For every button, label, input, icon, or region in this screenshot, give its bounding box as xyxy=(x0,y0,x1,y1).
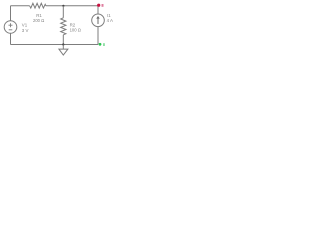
resistor R1 xyxy=(30,3,46,8)
node A probe label tick (red) xyxy=(102,4,104,7)
svg-text:100 Ω: 100 Ω xyxy=(70,28,81,33)
wire bottom horizontal xyxy=(11,44,99,46)
svg-text:200 Ω: 200 Ω xyxy=(33,18,44,23)
svg-text:3 V: 3 V xyxy=(22,28,29,33)
node A probe dot (red) xyxy=(97,4,100,7)
ground xyxy=(59,45,68,56)
wire left vertical (bottom) xyxy=(10,33,12,44)
wire right vertical (top) xyxy=(97,6,99,14)
node B probe label tick (green) xyxy=(103,43,105,46)
wire top middle segment xyxy=(46,5,98,7)
wire left vertical (top) xyxy=(10,6,12,21)
svg-text:V1: V1 xyxy=(22,23,28,28)
svg-text:4 A: 4 A xyxy=(107,18,113,23)
wire R2 top lead xyxy=(62,6,64,18)
current source I1 xyxy=(92,13,113,27)
resistor R2 xyxy=(61,18,66,35)
wire right vertical (bottom) xyxy=(97,27,99,45)
voltage source V1 xyxy=(4,21,28,34)
svg-text:R1: R1 xyxy=(36,13,42,18)
svg-text:R2: R2 xyxy=(70,22,76,27)
wire top-left horizontal segment xyxy=(11,5,30,7)
wire R2 bottom lead xyxy=(62,35,64,45)
node B probe dot (green) xyxy=(99,43,102,46)
node junction dot bottom of R2 xyxy=(62,43,64,45)
node junction dot top of R2 xyxy=(62,5,64,7)
